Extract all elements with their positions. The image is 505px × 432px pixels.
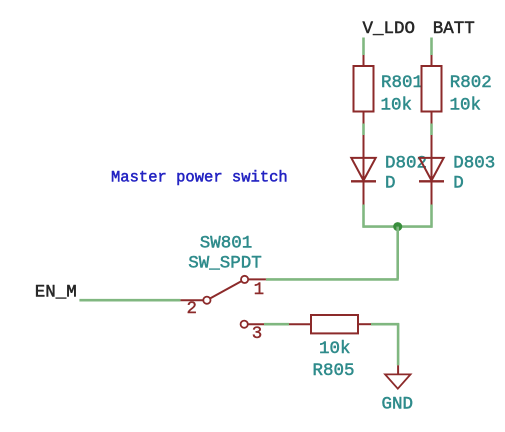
wire R801 to D802 <box>362 124 365 136</box>
svg-text:D803: D803 <box>453 153 495 173</box>
wire to switch pin 1 <box>266 278 399 281</box>
wire junction down <box>396 227 399 280</box>
svg-text:R801: R801 <box>381 73 423 93</box>
svg-text:3: 3 <box>252 324 263 344</box>
wire D803 down to bus <box>430 205 433 228</box>
svg-text:BATT: BATT <box>433 19 475 39</box>
svg-text:V_LDO: V_LDO <box>363 19 416 39</box>
resistor R802 <box>422 55 442 124</box>
ground <box>385 365 410 388</box>
switch SW801 <box>180 276 266 328</box>
svg-text:1: 1 <box>254 280 265 300</box>
svg-text:R802: R802 <box>450 73 492 93</box>
svg-text:D: D <box>385 173 396 193</box>
wire down to GND <box>397 323 400 365</box>
diode D803 <box>419 135 444 205</box>
junction node <box>393 222 402 231</box>
svg-text:Master power switch: Master power switch <box>111 169 288 187</box>
svg-text:R805: R805 <box>313 361 355 381</box>
resistor R801 <box>354 55 374 124</box>
wire from V_LDO to R801 <box>362 38 365 56</box>
wire R802 to D803 <box>430 124 433 136</box>
resistor R805 <box>289 315 371 333</box>
svg-text:D802: D802 <box>385 153 427 173</box>
svg-text:10k: 10k <box>450 96 482 116</box>
wire EN_M to switch pin 2 <box>79 299 180 302</box>
svg-text:EN_M: EN_M <box>35 282 77 302</box>
svg-text:SW801: SW801 <box>200 234 253 254</box>
svg-text:GND: GND <box>382 395 414 415</box>
svg-text:D: D <box>453 173 464 193</box>
svg-text:10k: 10k <box>319 339 351 359</box>
wire horizontal joining diodes <box>363 225 433 228</box>
wire R805 to GND corner <box>371 323 399 326</box>
wire switch pin 3 to R805 <box>264 323 289 326</box>
svg-text:10k: 10k <box>381 96 413 116</box>
wire D802 down to bus <box>362 205 365 228</box>
diode D802 <box>351 135 376 205</box>
svg-text:SW_SPDT: SW_SPDT <box>188 254 262 274</box>
svg-text:2: 2 <box>187 299 198 319</box>
wire from BATT to R802 <box>430 38 433 56</box>
